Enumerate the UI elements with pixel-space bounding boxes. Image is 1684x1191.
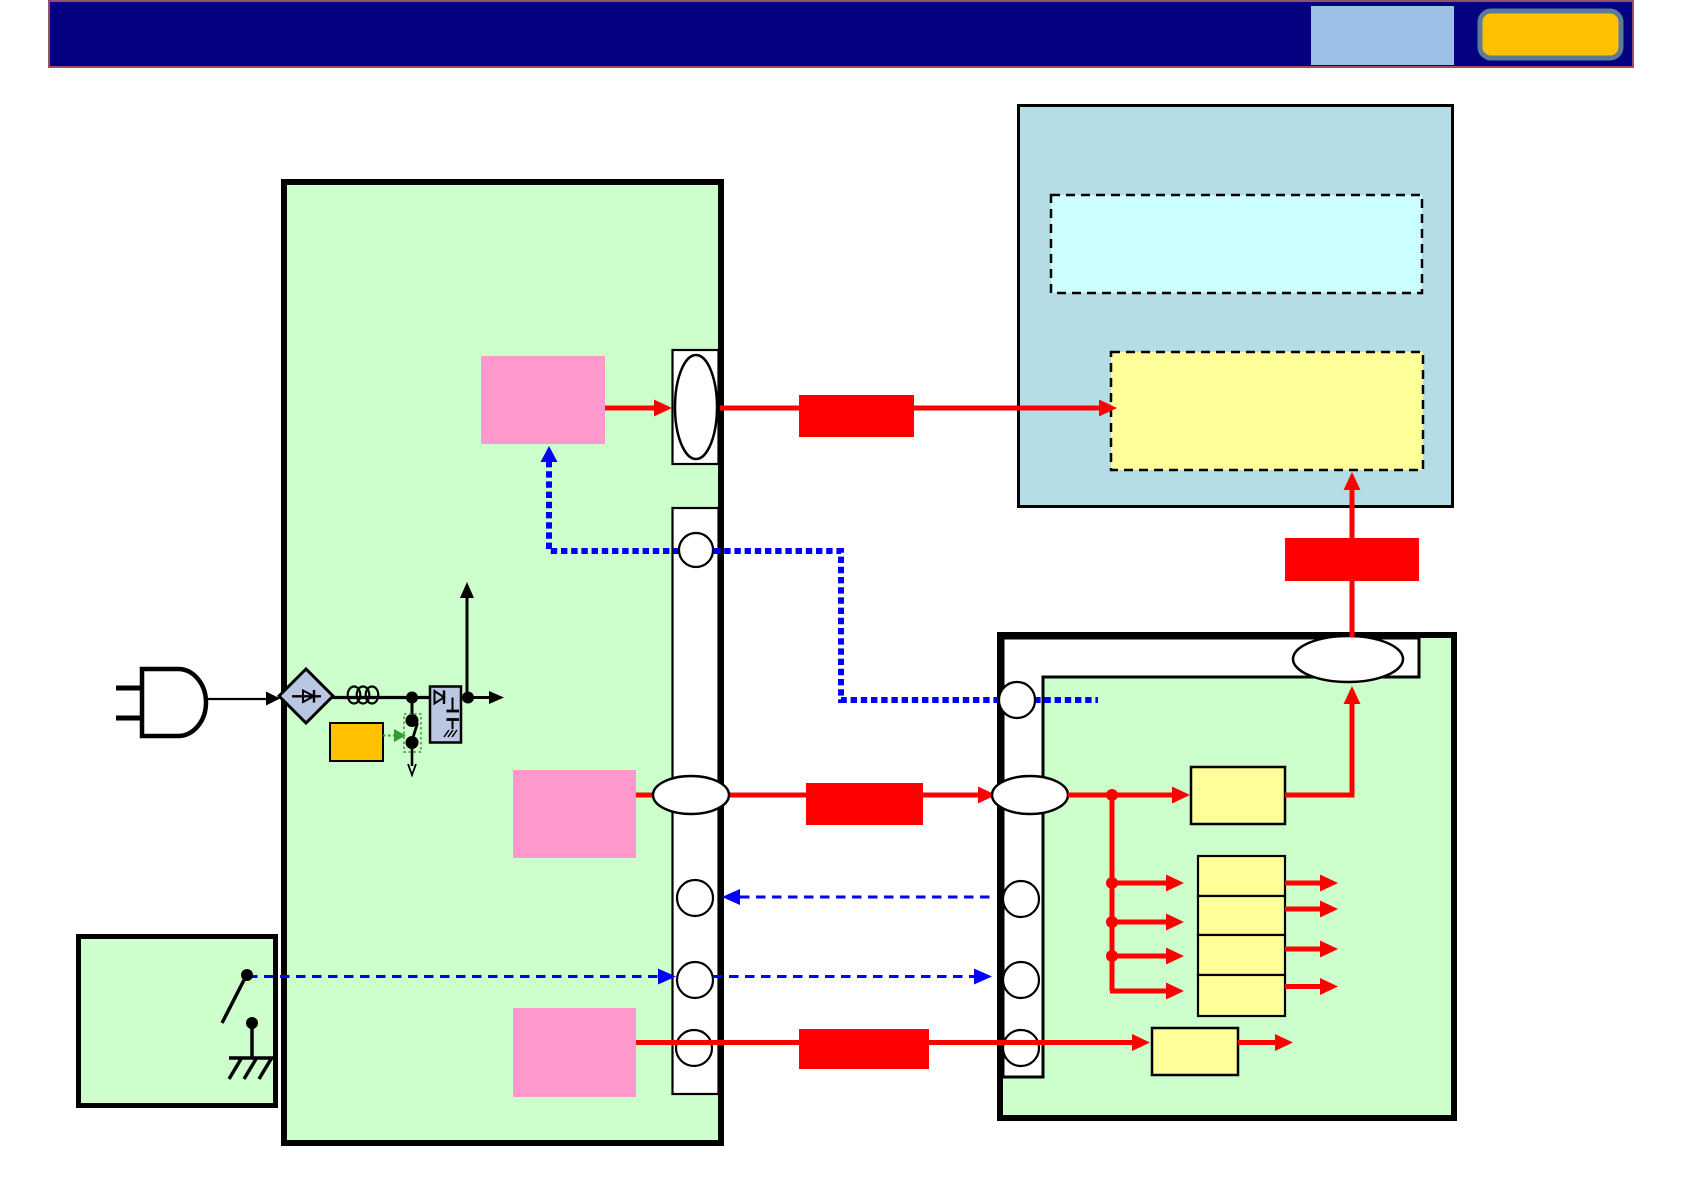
bridge rectifier BR (diamond): [279, 669, 333, 723]
module M2 (pink): [513, 770, 636, 858]
blue dashed status line D1: [740, 896, 996, 899]
branch wire B4: [1110, 989, 1166, 994]
branch wire B2: [1112, 920, 1166, 925]
regulator Y6 (yellow small): [1152, 1028, 1238, 1075]
stack output O3: [1285, 947, 1320, 952]
PSU enclosure panel (left green): [284, 182, 721, 1143]
arrow A6: [1344, 686, 1361, 704]
junction J3: [1106, 916, 1118, 928]
wire W10 (M3 to system panel): [636, 1040, 1132, 1045]
blue dashed remote line D2a: [248, 975, 658, 978]
ground symbol G1: [229, 1058, 276, 1079]
wire W2 (connector A to load panel): [720, 406, 1100, 411]
redraw wire W10 over contacts: [660, 1040, 1132, 1045]
circle C4: [676, 1030, 712, 1066]
junction J4: [1106, 950, 1118, 962]
inductor L1: [348, 687, 379, 704]
circle C8: [1003, 1030, 1039, 1066]
module M1 (pink): [481, 356, 605, 444]
redraw contact C5: [999, 682, 1035, 718]
connector strip B (left panel): [673, 508, 719, 1094]
arrow into rectifier: [266, 692, 280, 706]
cable block R4 (red): [1285, 538, 1419, 581]
connector housing A (left panel top): [673, 350, 719, 464]
main DC wire: [331, 696, 468, 699]
arrow A1: [654, 400, 672, 417]
wire plug to rectifier: [208, 698, 268, 700]
junction J2: [1106, 877, 1118, 889]
dashed yellow block: [1111, 352, 1423, 470]
converter stack row S2: [1198, 896, 1285, 935]
blue dotted control line (connector to M1): [549, 461, 1098, 700]
converter stack row S4: [1198, 975, 1285, 1016]
junction N2: [462, 692, 474, 704]
circle C3: [677, 962, 713, 998]
ellipse E1 (connector A contact): [675, 355, 717, 459]
blue arrow AB4: [974, 969, 992, 985]
rail arrow right: [468, 696, 489, 699]
ground squiggle in BT1: [452, 730, 457, 737]
redraw contact C1: [679, 533, 713, 567]
wire W3 (M2 to connector E2): [636, 793, 700, 798]
load panel (right top blue): [1019, 106, 1453, 507]
cable block R3 (red): [799, 1029, 929, 1069]
cable block R1 (red): [799, 395, 914, 437]
circle C6: [1003, 881, 1039, 917]
wire W4 (E2 to system panel): [700, 793, 978, 798]
wire W9 (E3 up to load): [1350, 490, 1355, 637]
stack output O1: [1285, 881, 1320, 886]
circle C1 (signal contact): [679, 533, 713, 567]
arrow A2: [1099, 400, 1117, 417]
arrow A4 (into Y6): [1132, 1034, 1150, 1051]
regulator Y1 (yellow): [1191, 767, 1285, 824]
blue arrow AB3: [658, 969, 676, 985]
wire W5 (E4 to regulator Y1): [1068, 793, 1172, 798]
stack output O2: [1285, 907, 1320, 912]
button B1 (light blue): [1311, 6, 1454, 65]
system panel (right bottom green): [1000, 635, 1454, 1118]
arrow A5: [1172, 787, 1190, 804]
remote switch SW2: [222, 969, 258, 1058]
remote box (bottom-left green): [79, 937, 276, 1106]
ellipse E3 (system top contact): [1293, 636, 1403, 682]
cable block R2 (red): [806, 783, 923, 825]
blue arrow AB1: [541, 446, 558, 462]
ellipse E4 (system power contact): [992, 776, 1068, 814]
branch wire B3: [1112, 954, 1166, 959]
ellipse E2 (power contact): [653, 776, 729, 814]
wire W8 (Y1 up to E3): [1285, 704, 1352, 795]
diode D in BT1: [435, 691, 445, 704]
dotted select box around SW1: [404, 714, 421, 752]
circle C2: [677, 880, 713, 916]
wire trunk T1: [1110, 795, 1115, 991]
arrow A3: [978, 787, 996, 804]
blue dashed remote line D2b: [713, 975, 974, 978]
green dotted control arrow: [383, 735, 394, 737]
branch wire B1: [1112, 881, 1166, 886]
junction J1: [1106, 789, 1118, 801]
dashed cyan block: [1051, 195, 1422, 293]
control block O (orange): [330, 723, 383, 761]
AC plug P: [116, 669, 206, 736]
diode inside BR: [292, 695, 321, 697]
stack output O4: [1285, 984, 1320, 989]
blue arrow AB2 (left): [722, 889, 740, 905]
wire W11 (Y6 output): [1238, 1040, 1275, 1045]
circle C5: [999, 682, 1035, 718]
battery block BT1: [430, 687, 461, 743]
title bar: [49, 1, 1633, 67]
system white L-band: [1003, 638, 1419, 1077]
module M3 (pink): [513, 1008, 636, 1097]
button B2 (orange): [1480, 11, 1621, 58]
switch SW1: [406, 698, 419, 776]
rail arrow up: [466, 598, 469, 698]
capacitor in BT1: [452, 698, 454, 712]
wire W1 (M1 to connector A): [605, 406, 656, 411]
junction N1: [406, 692, 418, 704]
arrow A7: [1344, 472, 1361, 490]
converter stack row S1 (yellow): [1198, 856, 1285, 896]
circle C7: [1003, 962, 1039, 998]
converter stack row S3: [1198, 935, 1285, 975]
